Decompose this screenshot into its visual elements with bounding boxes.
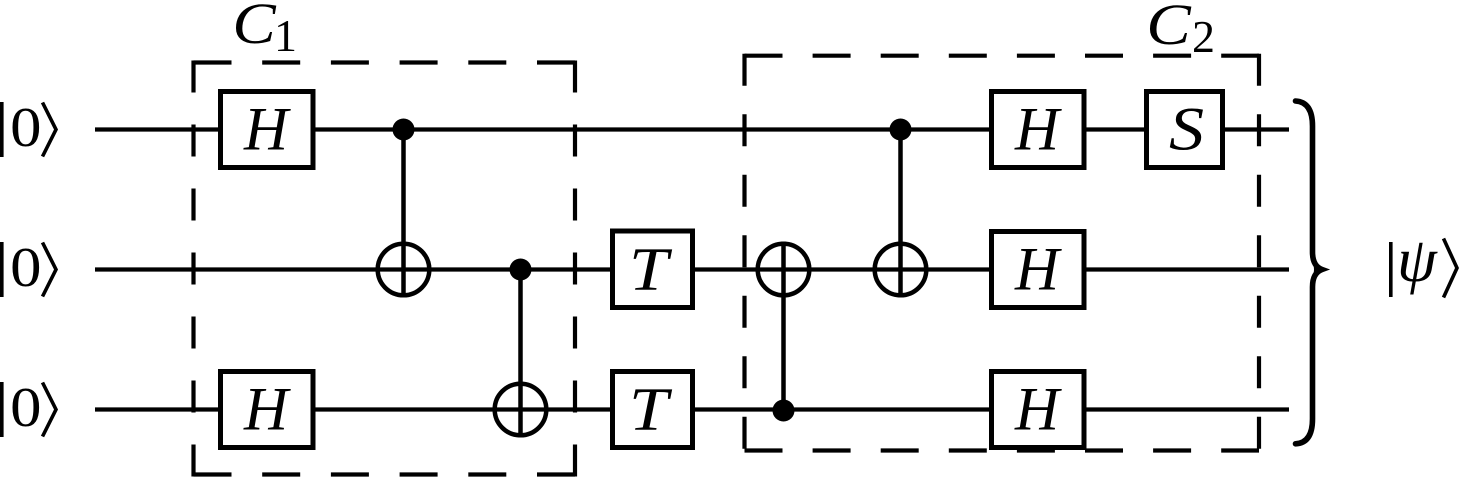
svg-text:H: H	[243, 97, 291, 164]
CNOT 2 control dot on q1	[510, 259, 532, 281]
CNOT 4 stem (q0 control to q1 target)	[898, 130, 903, 298]
CNOT 2 stem (q1 control to q2 target)	[518, 270, 523, 438]
ket |0> label qubit q2	[0, 376, 56, 438]
svg-text:H: H	[1014, 237, 1062, 304]
wire qubit q0	[95, 127, 1289, 131]
CNOT 4 control dot on q0	[890, 119, 912, 141]
svg-text:ψ: ψ	[1397, 224, 1438, 295]
wire qubit q1	[95, 267, 1289, 271]
svg-text:C: C	[232, 0, 276, 56]
dashed box C2	[745, 54, 1260, 453]
CNOT 3 target on q1	[758, 244, 810, 296]
CNOT 1 target on q1	[378, 244, 430, 296]
CNOT 4 target on q1	[875, 244, 927, 296]
wire qubit q2	[95, 407, 1289, 411]
label C1	[232, 0, 297, 61]
CNOT 3 stem (q2 control to q1 target)	[781, 242, 786, 411]
ket |0> label qubit q0	[0, 96, 56, 158]
gate H5 box on q2	[992, 372, 1085, 448]
gate T1 box on q1	[613, 231, 693, 308]
svg-text:T: T	[629, 236, 673, 304]
svg-text:H: H	[243, 377, 291, 444]
gate H1 box on q0	[221, 92, 314, 168]
svg-text:H: H	[1014, 377, 1062, 444]
gate T2 box on q2	[613, 372, 693, 448]
svg-text:0: 0	[10, 376, 41, 438]
svg-text:C: C	[1146, 0, 1192, 57]
svg-text:S: S	[1169, 96, 1204, 164]
gate H2 box on q2	[221, 372, 314, 448]
svg-text:1: 1	[274, 10, 297, 61]
CNOT 1 control dot on q0	[393, 119, 415, 141]
output brace	[1296, 101, 1323, 444]
ket |0> label qubit q1	[0, 236, 56, 298]
svg-text:H: H	[1014, 97, 1062, 164]
svg-text:0: 0	[10, 96, 41, 158]
CNOT 1 stem (q0 control to q1 target)	[401, 130, 406, 298]
ket psi output label	[1389, 224, 1457, 298]
svg-text:T: T	[629, 376, 673, 444]
output brace cusp point	[1312, 257, 1330, 282]
CNOT 3 control dot on q2	[773, 400, 795, 422]
gate H3 box on q0	[992, 92, 1085, 168]
label C2	[1146, 0, 1215, 62]
svg-text:2: 2	[1192, 11, 1215, 62]
CNOT 2 target on q2	[495, 384, 547, 436]
gate H4 box on q1	[992, 232, 1085, 308]
gate S box on q0	[1147, 92, 1223, 168]
svg-text:0: 0	[10, 236, 41, 298]
dashed box C1	[194, 61, 576, 477]
